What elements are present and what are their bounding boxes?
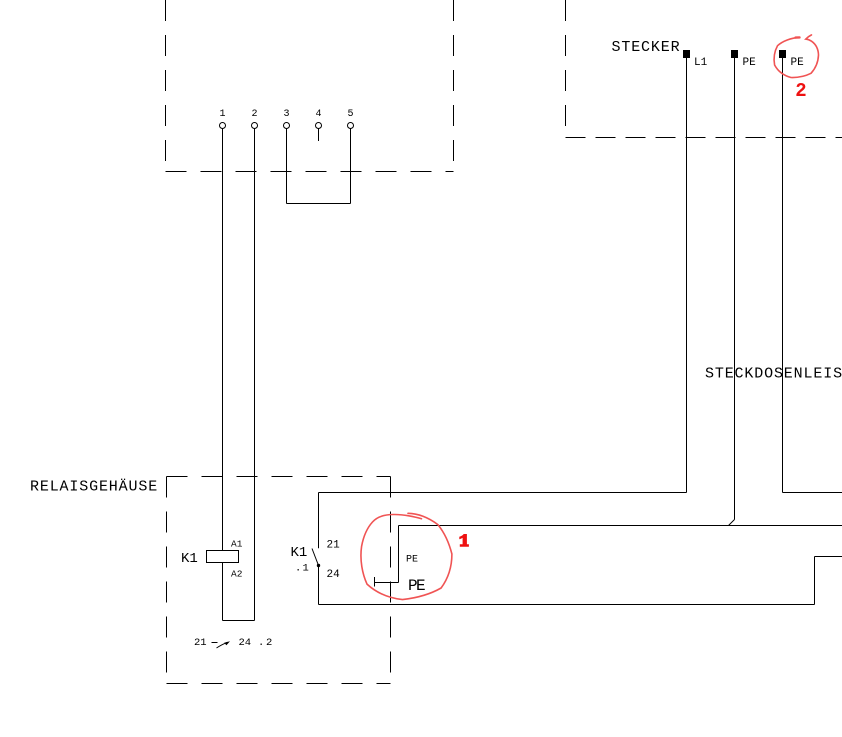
svg-text:RELAISGEHÄUSE: RELAISGEHÄUSE (30, 478, 158, 496)
red circle 2 pen start (796, 36, 800, 39)
svg-text:24: 24 (239, 637, 252, 649)
svg-text:A2: A2 (231, 569, 243, 580)
wire terminal 3 down (286, 129, 288, 204)
wire PE rail (399, 525, 842, 527)
terminal 4 (316, 123, 322, 129)
red number 1 (459, 534, 469, 547)
svg-text:K1: K1 (291, 545, 308, 561)
wire PE stub left (375, 582, 399, 584)
svg-text:1: 1 (303, 563, 309, 575)
arrowhead annotation (224, 641, 230, 645)
enclosure STECKER (dashed) left edge (565, 0, 567, 138)
svg-text:21: 21 (194, 637, 207, 649)
contact K1 blade (312, 549, 319, 566)
wire PE drop into box (398, 526, 400, 583)
wire socket strip left edge lower (318, 566, 320, 605)
svg-text:3: 3 (283, 109, 289, 120)
wire PE1 diagonal joint (729, 520, 735, 526)
terminal 1 (220, 123, 226, 129)
annotation arrow 21-24 (217, 642, 228, 648)
enclosure STECKER bottom edge (566, 137, 842, 139)
enclosure box A bottom edge (166, 171, 454, 173)
svg-text:K1: K1 (181, 551, 198, 567)
svg-text:STECKDOSENLEISTE: STECKDOSENLEISTE (705, 366, 842, 383)
svg-text:.: . (258, 637, 264, 649)
wire terminal 1 to coil A1 (222, 129, 224, 551)
wire socket strip right step up (814, 557, 816, 605)
stub terminal 4 (318, 129, 320, 142)
enclosure box A (terminal strip, dashed) left edge (165, 0, 167, 172)
svg-text:PE: PE (406, 555, 418, 566)
enclosure RELAISGEHÄUSE (dashed) top edge (167, 476, 391, 478)
enclosure RELAISGEHÄUSE bottom edge (167, 683, 391, 685)
junction dot contact 24 (317, 564, 320, 567)
enclosure RELAISGEHÄUSE right edge (390, 477, 392, 684)
wire socket strip left edge upper (to contact 21) (318, 493, 320, 549)
red circle 2 (annotation) (774, 35, 818, 78)
svg-text:PE: PE (743, 57, 757, 69)
svg-text:1: 1 (219, 109, 225, 120)
wire socket strip bottom edge (319, 604, 815, 606)
terminal tick PE (374, 577, 376, 587)
svg-text:PE: PE (408, 577, 425, 595)
svg-text:4: 4 (315, 109, 321, 120)
svg-text:24: 24 (327, 569, 341, 581)
wire PE2 down (782, 58, 784, 493)
relay coil K1 (207, 551, 239, 563)
jumper wire 3-5 (287, 203, 351, 205)
terminal PE square (right) (779, 50, 786, 58)
wire terminal 5 down (350, 129, 352, 204)
svg-text:.: . (295, 563, 301, 575)
terminal 5 (348, 123, 354, 129)
wire PE2 to right edge (783, 492, 842, 494)
wire top edge of socket strip box (319, 492, 687, 494)
svg-text:2: 2 (251, 109, 257, 120)
svg-text:21: 21 (327, 540, 341, 552)
red circle 1 (annotation) (361, 513, 452, 599)
wire terminal 2 down (254, 129, 256, 621)
svg-text:STECKER: STECKER (612, 39, 681, 56)
svg-text:5: 5 (347, 109, 353, 120)
wire hairpin bottom (223, 620, 255, 622)
wire L1 down (686, 58, 688, 493)
wire coil A2 down (222, 562, 224, 621)
terminal PE square (middle) (731, 50, 738, 58)
svg-text:PE: PE (791, 57, 805, 69)
svg-text:A1: A1 (231, 539, 243, 550)
svg-text:2: 2 (266, 637, 272, 649)
wire PE1 down (734, 58, 736, 520)
terminal 3 (284, 123, 290, 129)
svg-text:L1: L1 (694, 57, 708, 69)
enclosure RELAISGEHÄUSE left edge (166, 477, 168, 684)
wire socket strip step to right edge (815, 556, 842, 558)
svg-text:2: 2 (795, 80, 806, 102)
enclosure box A right edge (453, 0, 455, 172)
annotation dash (212, 642, 218, 644)
terminal L1 square (683, 50, 690, 58)
terminal 2 (252, 123, 258, 129)
